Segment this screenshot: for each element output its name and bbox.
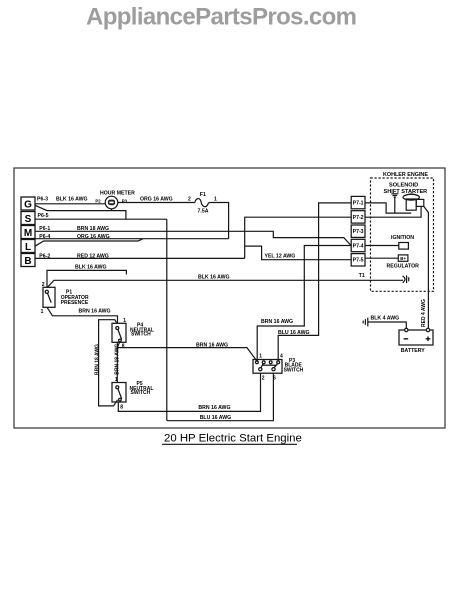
terminal T1 spade symbol: [403, 275, 409, 283]
svg-text:P2: P2: [95, 199, 101, 204]
svg-text:7.5A: 7.5A: [198, 209, 209, 215]
svg-text:SHIFT STARTER: SHIFT STARTER: [384, 189, 428, 195]
svg-text:BLK 4 AWG: BLK 4 AWG: [371, 315, 400, 321]
svg-text:B+: B+: [400, 256, 406, 261]
wire BRN 16 AWG P1 to P4: [47, 307, 118, 323]
svg-text:1: 1: [259, 354, 262, 360]
svg-text:2: 2: [262, 376, 265, 382]
wire BLK 16 AWG from P1 terminal 2 upper row: [47, 264, 126, 287]
wire P6-1 BRN 18 AWG from M to P7-4: [35, 226, 351, 246]
wire P7-2 to solenoid: [366, 206, 422, 217]
caption 20 HP Electric Start Engine: [164, 433, 302, 445]
wire P6-2 RED 12 AWG from B: [35, 253, 245, 259]
battery: [399, 328, 433, 354]
wire S riser down to BLU bottom row: [166, 219, 168, 421]
wire fuse to ORG row drop: [210, 203, 228, 239]
neutral switch P5: [112, 377, 153, 410]
svg-text:BRN 16 AWG: BRN 16 AWG: [261, 319, 293, 325]
wire BLU 16 AWG blade pin 4 riser to P7-1: [278, 203, 351, 361]
svg-text:AppliancePartsPros.com: AppliancePartsPros.com: [86, 4, 357, 31]
svg-text:2: 2: [42, 282, 45, 288]
svg-text:BRN 18 AWG: BRN 18 AWG: [77, 226, 109, 232]
svg-text:ORG 16 AWG: ORG 16 AWG: [140, 197, 173, 203]
svg-text:ORG 16 AWG: ORG 16 AWG: [77, 234, 110, 240]
svg-text:P6-1: P6-1: [39, 226, 50, 232]
fuse F1 7.5A: [188, 192, 217, 215]
svg-text:BATTERY: BATTERY: [401, 348, 425, 354]
svg-text:P7-3: P7-3: [353, 229, 364, 235]
label RED 4 AWG: [421, 299, 427, 327]
svg-text:SWITCH: SWITCH: [131, 390, 151, 396]
node T1: [359, 273, 365, 279]
label BRN 18 AWG (left riser): [95, 344, 101, 375]
svg-text:20 HP Electric Start Engine: 20 HP Electric Start Engine: [164, 433, 302, 445]
svg-text:S: S: [25, 214, 32, 225]
svg-text:RED 4 AWG: RED 4 AWG: [421, 299, 427, 327]
wire BLK 16 AWG from P1 to T1: [48, 275, 404, 288]
wire RED 4 AWG solenoid to battery +: [424, 206, 429, 330]
connector P7-2: [351, 211, 365, 223]
svg-text:M: M: [24, 228, 32, 239]
wire P6-5 from S: [35, 213, 167, 219]
wire BRN 18 AWG bus P4 top to P5 lower contact: [99, 320, 118, 406]
svg-text:P7-2: P7-2: [353, 215, 364, 221]
svg-text:P6-3: P6-3: [37, 197, 48, 203]
svg-text:PRESENCE: PRESENCE: [61, 300, 89, 306]
svg-text:YEL 12 AWG: YEL 12 AWG: [265, 254, 296, 260]
neutral switch P4: [112, 318, 154, 350]
wire P7-4 to ignition: [366, 245, 399, 247]
blade switch P3: [253, 354, 304, 382]
wire BLK 4 AWG ground to battery -: [368, 315, 407, 330]
svg-text:1: 1: [123, 318, 126, 324]
connector P7-4: [351, 239, 365, 251]
svg-text:8: 8: [122, 344, 125, 350]
wire BRN 16 AWG P4 term 8 to blade pin 1: [117, 342, 257, 361]
connector P6 pin B: [21, 254, 35, 268]
svg-text:8: 8: [120, 404, 123, 410]
svg-text:KOHLER ENGINE: KOHLER ENGINE: [383, 172, 428, 178]
svg-text:BLU 16 AWG: BLU 16 AWG: [278, 330, 310, 336]
svg-text:B: B: [24, 256, 31, 267]
svg-text:BLK 16 AWG: BLK 16 AWG: [198, 275, 230, 281]
svg-text:BRN 16 AWG: BRN 16 AWG: [79, 308, 111, 314]
svg-text:REGULATOR: REGULATOR: [387, 264, 420, 270]
wire BRN 18 AWG P4 bottom to P5 top: [116, 342, 118, 382]
label SOLENOID SHIFT STARTER: [384, 183, 428, 195]
svg-text:BRN 16 AWG: BRN 16 AWG: [196, 343, 228, 349]
svg-text:BLU 16 AWG: BLU 16 AWG: [200, 415, 232, 421]
wire P7-5 to regulator: [366, 257, 399, 259]
svg-text:P6-2: P6-2: [39, 253, 50, 259]
svg-text:P7-4: P7-4: [353, 243, 364, 249]
svg-text:BRN 18 AWG: BRN 18 AWG: [115, 344, 121, 375]
svg-text:BLK 16 AWG: BLK 16 AWG: [56, 197, 88, 203]
starter motor: [403, 194, 419, 210]
solenoid: [416, 199, 424, 206]
svg-text:6: 6: [273, 376, 276, 382]
svg-text:1: 1: [214, 196, 217, 202]
wire YEL 12 AWG branch to P7-5: [245, 246, 351, 260]
svg-text:HOUR METER: HOUR METER: [100, 190, 135, 196]
connector P6 pin L: [21, 240, 35, 254]
svg-text:T1: T1: [359, 273, 365, 279]
svg-text:1: 1: [41, 309, 44, 315]
wire BRN 16 AWG P5 term 8 to blade pin 2: [118, 373, 260, 411]
connector P6 pin M: [21, 226, 35, 240]
wire P7-1 to starter bottom bus: [366, 203, 412, 213]
wire RED riser to P7-2: [245, 217, 351, 258]
svg-text:SWITCH: SWITCH: [284, 367, 304, 373]
svg-text:P6-4: P6-4: [39, 234, 50, 240]
svg-text:IGNITION: IGNITION: [391, 235, 414, 241]
wire P6-3 BLK 16 AWG from G to hour meter: [35, 197, 105, 204]
connector P7-5: [351, 254, 365, 266]
ground (battery): [363, 318, 368, 327]
wire ORG 16 AWG hour meter to fuse: [118, 197, 195, 203]
hour meter M1: [95, 190, 135, 210]
connector P6 pin G: [21, 197, 35, 211]
wire BLU 16 AWG bottom row to blade pin 6: [167, 373, 274, 421]
regulator B+: [387, 255, 420, 270]
svg-text:2: 2: [188, 196, 191, 202]
label BRN 18 AWG (middle riser): [115, 344, 121, 375]
wire from L joining ORG row: [35, 239, 143, 247]
svg-text:SWITCH: SWITCH: [131, 332, 151, 338]
svg-text:P7-1: P7-1: [353, 201, 364, 207]
wire ground bus from G under hour meter: [35, 205, 126, 219]
connector P7-1: [351, 196, 365, 208]
svg-text:G: G: [24, 200, 32, 211]
svg-text:BLK 16 AWG: BLK 16 AWG: [75, 264, 107, 270]
svg-text:F1: F1: [200, 192, 206, 198]
wire BRN 16 AWG blade pin 1 riser to P7-4: [257, 246, 351, 362]
svg-text:SOLENOID: SOLENOID: [389, 183, 418, 189]
svg-text:P7-5: P7-5: [353, 258, 364, 264]
connector P7-3: [351, 225, 365, 237]
ground (starter): [391, 194, 398, 213]
svg-text:4: 4: [280, 354, 283, 360]
svg-text:BRN 18 AWG: BRN 18 AWG: [95, 344, 101, 375]
wire P6-4 ORG 16 AWG row: [35, 234, 229, 240]
svg-text:BRN 16 AWG: BRN 16 AWG: [198, 405, 230, 411]
svg-text:1: 1: [115, 377, 118, 383]
operator presence switch P1: [41, 282, 89, 315]
svg-text:L: L: [25, 242, 31, 253]
ignition module: [391, 235, 414, 249]
connector P6 pin S: [21, 212, 35, 226]
svg-text:P6-5: P6-5: [38, 213, 49, 219]
svg-text:RED 12 AWG: RED 12 AWG: [77, 253, 109, 259]
KOHLER ENGINE enclosure: [371, 172, 434, 291]
